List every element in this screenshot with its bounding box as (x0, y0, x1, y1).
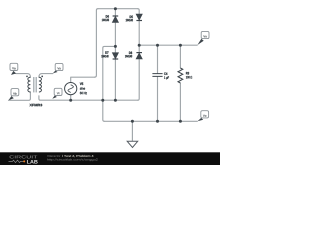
wire right column D5 to output node (138, 21, 140, 53)
ground (127, 141, 138, 147)
diode D6 labels (106, 15, 109, 17)
junction node R3 top (179, 44, 182, 47)
wire top right corner (138, 9, 140, 15)
diode D5 (136, 14, 142, 20)
voltage source V5 labels (80, 83, 83, 85)
junction node DC plus D5-D8 (138, 44, 141, 47)
footer bar (0, 152, 220, 165)
footer logo LAB (27, 160, 38, 163)
transformer XFMR3 secondary coil (39, 77, 42, 92)
node flag Va primary top (10, 63, 18, 75)
capacitor C4 (152, 74, 162, 77)
diode D8 labels (129, 52, 132, 54)
node flag Vo output bottom (198, 111, 209, 122)
junction node R3 bottom (179, 120, 182, 123)
node flag Vi secondary bottom (52, 88, 62, 99)
transformer XFMR3 primary coil (28, 77, 31, 92)
wire output rail (139, 44, 197, 46)
transformer label XFMR3 (29, 104, 42, 106)
diode D5 labels (130, 16, 133, 18)
footer url text (47, 158, 97, 161)
footer logo orange node (23, 160, 25, 162)
wire top AC rail (98, 8, 138, 10)
resistor R3 labels (186, 72, 189, 74)
wire bottom rail (104, 120, 197, 122)
transformer XFMR3 core (33, 77, 36, 92)
wire middle column D7 bottom (114, 59, 116, 100)
transformer polarity dot left (26, 76, 28, 78)
node flag Vo output top (197, 31, 209, 45)
junction node top wire / D6 (114, 7, 117, 10)
resistor R3 (178, 68, 183, 83)
wire C4 column (157, 45, 159, 121)
wire left rail (95, 9, 98, 78)
footer logo CIRCUIT (10, 155, 38, 158)
wire right column lower corner (138, 59, 140, 100)
wire primary bottom pin (9, 92, 31, 100)
diode D6 (113, 16, 119, 22)
node flag Vb primary bottom (9, 89, 19, 101)
junction node DC minus D6-D7 (114, 45, 117, 48)
junction node C4 bottom (156, 120, 159, 123)
wire ground stub (131, 121, 133, 141)
wire DC minus jog down to bottom rail (103, 46, 116, 121)
diode D7 labels (105, 51, 108, 53)
diode D8 (136, 53, 142, 59)
wire secondary top pin (39, 74, 53, 78)
wire primary top pin (16, 74, 30, 78)
wire V5 top horizontal (71, 77, 95, 82)
capacitor C4 labels (164, 72, 167, 74)
wire middle column D6 top (114, 9, 116, 16)
voltage source V5 (65, 83, 77, 95)
wire secondary bottom to bridge AC2 (39, 96, 138, 100)
junction node D7 bottom (114, 99, 117, 102)
diode D7 (113, 53, 119, 59)
transformer polarity dot right (41, 76, 43, 78)
junction node C4 top (156, 44, 159, 47)
junction node V5 bottom (69, 99, 72, 102)
footer title text (47, 155, 60, 157)
footer logo resistor zigzag (9, 160, 24, 162)
wire middle column between D6 and D7 (114, 22, 116, 52)
wire R3 column (179, 45, 181, 121)
junction node jog crossing (101, 99, 104, 102)
junction node ground stub (131, 120, 134, 123)
wire V5 bottom stub (70, 95, 72, 100)
node flag Vs secondary top (53, 63, 63, 73)
